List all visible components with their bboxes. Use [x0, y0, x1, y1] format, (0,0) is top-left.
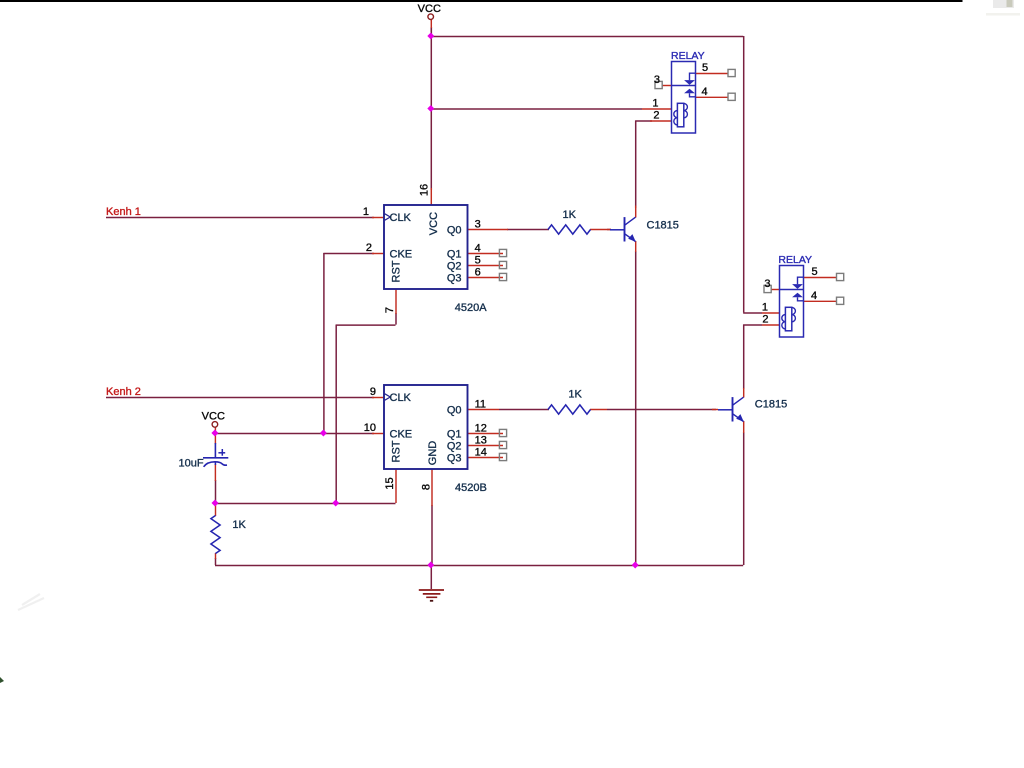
svg-text:CKE: CKE — [390, 428, 413, 440]
svg-text:4520A: 4520A — [455, 302, 487, 314]
svg-text:2: 2 — [366, 242, 372, 254]
svg-text:CLK: CLK — [390, 392, 412, 404]
svg-text:Q3: Q3 — [447, 272, 462, 284]
svg-text:Q2: Q2 — [447, 260, 462, 272]
svg-text:Q1: Q1 — [447, 248, 462, 260]
svg-text:1: 1 — [363, 206, 369, 218]
svg-text:4520B: 4520B — [455, 482, 487, 494]
svg-text:16: 16 — [419, 184, 431, 196]
svg-text:VCC: VCC — [418, 3, 441, 15]
svg-text:Q0: Q0 — [447, 404, 462, 416]
svg-text:6: 6 — [475, 266, 481, 278]
svg-text:14: 14 — [475, 446, 487, 458]
svg-text:13: 13 — [475, 434, 487, 446]
svg-text:8: 8 — [421, 484, 433, 490]
svg-text:2: 2 — [762, 314, 768, 326]
svg-text:2: 2 — [653, 110, 659, 122]
svg-text:RST: RST — [391, 440, 403, 462]
svg-text:11: 11 — [475, 398, 486, 410]
svg-text:5: 5 — [475, 254, 481, 266]
svg-text:1: 1 — [762, 302, 768, 314]
svg-text:Kenh 2: Kenh 2 — [106, 386, 141, 398]
svg-text:VCC: VCC — [202, 411, 225, 423]
svg-text:1: 1 — [652, 98, 658, 110]
svg-text:Q2: Q2 — [447, 440, 462, 452]
svg-text:12: 12 — [475, 422, 487, 434]
svg-text:RELAY: RELAY — [671, 50, 705, 62]
svg-text:1K: 1K — [563, 209, 577, 221]
svg-text:9: 9 — [370, 386, 376, 398]
svg-text:Q3: Q3 — [447, 452, 462, 464]
svg-text:RST: RST — [391, 260, 403, 282]
svg-text:5: 5 — [702, 62, 708, 74]
svg-text:4: 4 — [702, 86, 708, 98]
svg-text:Q1: Q1 — [447, 428, 462, 440]
svg-text:10: 10 — [364, 422, 376, 434]
svg-text:7: 7 — [384, 307, 396, 313]
svg-text:3: 3 — [764, 278, 770, 290]
svg-text:4: 4 — [475, 242, 481, 254]
svg-text:3: 3 — [654, 74, 660, 86]
svg-text:10uF: 10uF — [179, 458, 204, 470]
svg-text:3: 3 — [475, 218, 481, 230]
svg-text:1K: 1K — [232, 519, 246, 531]
svg-text:RELAY: RELAY — [778, 254, 812, 266]
svg-text:Q0: Q0 — [447, 224, 462, 236]
svg-text:15: 15 — [384, 477, 396, 489]
svg-text:C1815: C1815 — [647, 220, 679, 232]
svg-text:VCC: VCC — [428, 212, 440, 235]
svg-text:1K: 1K — [568, 389, 582, 401]
svg-text:GND: GND — [427, 441, 439, 466]
svg-text:CLK: CLK — [390, 212, 412, 224]
svg-text:5: 5 — [812, 266, 818, 278]
svg-text:4: 4 — [811, 290, 817, 302]
svg-text:Kenh 1: Kenh 1 — [106, 206, 141, 218]
svg-text:CKE: CKE — [390, 248, 413, 260]
svg-text:C1815: C1815 — [755, 399, 787, 411]
